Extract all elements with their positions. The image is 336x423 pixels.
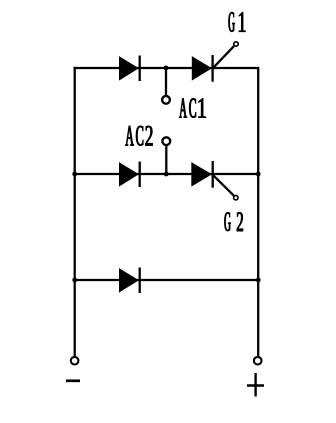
wire: top rail <box>74 67 259 69</box>
wire: right rail <box>257 67 259 356</box>
label AC1 <box>179 99 206 118</box>
node AC2: junction dot <box>164 172 169 177</box>
terminal AC2 circle <box>162 137 170 145</box>
junction dot: left-bottom <box>72 278 77 283</box>
label AC2 <box>125 126 152 146</box>
diode D2 <box>119 162 140 188</box>
terminal G2 circle <box>234 196 238 200</box>
junction dot: left-middle <box>72 172 77 177</box>
junction dot: right-middle <box>256 172 261 177</box>
diode D3 <box>119 268 140 294</box>
node AC1: junction dot <box>164 66 169 71</box>
wire: middle rail <box>74 173 259 175</box>
diode D1 <box>119 56 140 82</box>
label G1 <box>229 12 246 32</box>
label plus <box>247 373 264 397</box>
wire: AC1 stub <box>165 68 167 96</box>
terminal G1 circle <box>234 42 238 46</box>
wire: left rail <box>74 67 76 356</box>
wire: bottom rail <box>74 279 259 281</box>
terminal - (minus output) <box>71 357 79 365</box>
thyristor T2 <box>191 161 233 196</box>
junction dot: right-bottom <box>256 278 261 283</box>
label G2 <box>225 212 243 231</box>
label minus <box>66 379 80 382</box>
thyristor T1 <box>192 46 234 81</box>
terminal + (plus output) <box>254 357 262 365</box>
terminal AC1 circle <box>162 96 170 104</box>
wire: AC2 stub <box>165 146 167 174</box>
